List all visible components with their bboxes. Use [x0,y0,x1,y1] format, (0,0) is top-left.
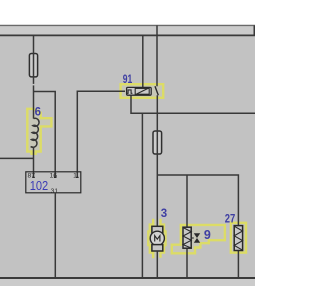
diagonal in 91 [137,88,148,94]
switch lever of 91 [155,86,158,95]
valve 27 body [234,226,242,251]
fuse S1 body [29,54,37,77]
ground rail (terminal 31) [0,277,255,279]
wire motor to ground rail [156,251,158,278]
highlight fill of motor 3 [150,225,164,253]
branch drop to valve 9 [186,175,188,278]
right edge stub wire [253,25,255,35]
highlight of relay coil 6 [27,109,51,154]
valve 27 winding zigzag [234,226,242,250]
highlight of motor 3 [148,219,165,258]
control unit 102 box [26,172,81,193]
svg-text:9: 9 [204,228,211,242]
valve 9 winding zigzag [183,228,191,249]
fuse S2 body [153,131,162,154]
valve 9 link to nozzle [191,237,194,239]
wire from bus through fuse S1 to coil [33,35,35,118]
svg-text:31: 31 [51,188,59,195]
highlight of valve 9 [172,225,225,253]
top bus band [0,26,255,35]
svg-text:1: 1 [73,173,77,180]
svg-text:3: 3 [161,208,167,220]
highlight of switch 91 [121,84,164,98]
pin terminal tick 16 [54,176,57,178]
pin terminal tick 87 [32,176,35,178]
schematic gray area [0,25,255,279]
valve 9 nozzle bowtie [194,233,200,243]
background page [0,0,255,300]
bottom band below ground rail [0,279,255,286]
branch wire to valves [157,175,238,226]
pin terminal tick 1 [76,176,79,178]
highlight of valve 27 [231,223,246,253]
svg-text:16: 16 [49,173,57,180]
wire coil bottom to box 102 pin 87 [33,147,35,177]
inner cell of 91 [135,88,149,94]
pump motor 3 top cap [152,226,163,233]
wire branch to pin 16 [34,92,56,178]
switch unit 91 body [127,87,152,95]
coil winding 6 [31,118,39,147]
main feed wire right from top rail [156,25,158,86]
pulse symbol in 91 [127,90,133,93]
motor letter M [155,236,160,242]
valve 9 body [183,227,191,248]
wire from switch 91 to pin 1 [77,91,125,177]
wire from left edge node [0,157,34,159]
connector break on wire [33,84,35,86]
svg-text:6: 6 [35,106,41,118]
ground wire from switch 91 [131,95,255,113]
ground wire pin 31 [54,193,56,278]
bus rail lower (terminal 15) [0,34,255,36]
pump motor 3 bottom cap [152,245,163,251]
pump motor 3 circle [150,231,164,245]
feed wire below lever through fuse to motor [156,95,158,226]
svg-text:91: 91 [123,74,133,86]
bus rail top (terminal 30) [0,24,255,26]
ground drop wire x142 [141,113,143,278]
wire from bus to switch 91 [142,35,144,88]
wire valve 27 to ground rail [237,251,239,279]
svg-text:102: 102 [30,178,49,193]
svg-text:27: 27 [225,214,236,226]
